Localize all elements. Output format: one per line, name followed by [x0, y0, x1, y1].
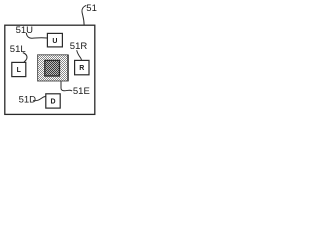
key L box — [12, 62, 26, 76]
leader from 51R to R box — [77, 50, 82, 60]
touch pad darker right edge — [67, 55, 69, 81]
key D box — [46, 94, 60, 108]
touch pad inner dark square — [45, 60, 60, 76]
svg-text:51U: 51U — [16, 25, 34, 36]
svg-text:D: D — [50, 99, 55, 106]
svg-text:51R: 51R — [70, 41, 88, 52]
svg-text:L: L — [17, 67, 22, 74]
leader from 51D to D box — [33, 96, 46, 100]
background — [0, 0, 105, 120]
svg-text:51E: 51E — [73, 86, 90, 97]
svg-text:51D: 51D — [19, 94, 37, 105]
leader from 51 to panel top edge — [82, 5, 86, 25]
svg-text:U: U — [52, 38, 57, 45]
svg-text:51L: 51L — [10, 44, 26, 55]
svg-text:R: R — [79, 65, 84, 72]
key R box — [75, 60, 89, 74]
svg-text:51: 51 — [86, 3, 97, 14]
leader from touch pad to 51E — [61, 81, 72, 91]
leader from 51L to L box — [23, 53, 27, 63]
touch pad stippled square 51E outer — [38, 55, 69, 81]
outer panel box 51 — [5, 25, 95, 114]
key U box — [47, 33, 62, 47]
leader from 51U to U box — [26, 33, 47, 38]
